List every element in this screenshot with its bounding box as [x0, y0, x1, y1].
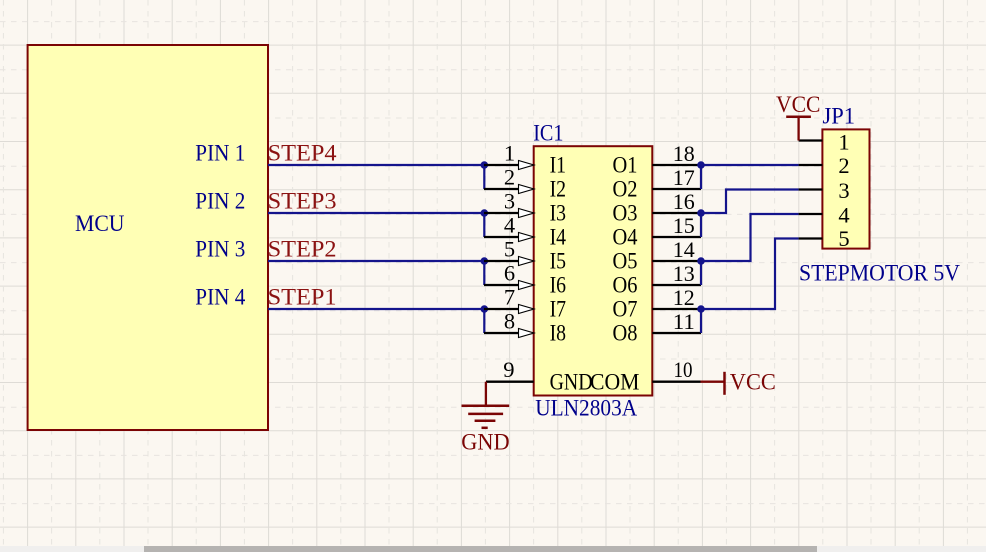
JP1 pin 4 stub	[799, 203, 850, 228]
svg-text:14: 14	[673, 237, 695, 262]
wire O3/O4 pair to JP1 pin 3 vertical pair link	[700, 213, 702, 237]
wire O5/O6 pair to JP1 pin 4 routed	[701, 214, 799, 261]
IC1 output pin 12 stub	[652, 285, 701, 310]
svg-text:I6: I6	[550, 272, 567, 298]
wire O7/O8 pair to JP1 pin 5 vertical pair link	[700, 309, 702, 333]
svg-text:JP1: JP1	[823, 104, 856, 130]
svg-text:GND: GND	[550, 370, 593, 396]
svg-text:11: 11	[673, 309, 695, 334]
wire O1/O2 pair to JP1 pin 2 vertical pair link	[700, 165, 702, 189]
junction at IC1 output, O7/O8 pair to JP1 pin 5	[697, 305, 705, 313]
junction at IC1 output, O1/O2 pair to JP1 pin 2	[697, 161, 705, 169]
svg-text:2: 2	[838, 153, 849, 178]
svg-text:STEP3: STEP3	[268, 188, 337, 214]
svg-text:I7: I7	[550, 296, 567, 322]
IC1 input pin 6 stub with input triangle	[484, 261, 534, 290]
junction net STEP1	[481, 305, 489, 313]
wire net STEP4 horizontal MCU to IC1	[268, 164, 484, 166]
svg-text:9: 9	[503, 357, 514, 382]
svg-text:O8: O8	[613, 320, 638, 346]
svg-text:6: 6	[504, 261, 515, 286]
svg-text:IC1: IC1	[533, 121, 563, 147]
wire O3/O4 pair to JP1 pin 3 routed	[701, 190, 799, 214]
IC1 pin 9 (GND) stub	[486, 357, 534, 382]
svg-text:5: 5	[504, 237, 515, 262]
svg-text:4: 4	[838, 203, 849, 228]
wire net STEP2 horizontal MCU to IC1	[268, 260, 484, 262]
svg-text:O7: O7	[613, 296, 638, 322]
IC1 output pin 18 stub	[652, 141, 701, 166]
junction at IC1 output, O5/O6 pair to JP1 pin 4	[697, 257, 705, 265]
svg-text:PIN 2: PIN 2	[195, 188, 245, 214]
IC1 input pin 2 stub with input triangle	[484, 165, 534, 194]
svg-text:3: 3	[504, 189, 515, 214]
IC1 input pin 8 stub with input triangle	[484, 309, 534, 338]
JP1 pin 1 stub	[799, 130, 850, 155]
power port VCC (top, feeds JP1 pin 1)	[776, 92, 821, 140]
svg-text:8: 8	[504, 309, 515, 334]
svg-text:STEP1: STEP1	[268, 284, 337, 310]
svg-text:STEP2: STEP2	[268, 236, 337, 262]
svg-text:O4: O4	[613, 224, 638, 250]
wire net STEP2 vertical to lower input pin	[483, 261, 485, 285]
wire net STEP1 vertical to lower input pin	[483, 309, 485, 333]
svg-text:O6: O6	[613, 272, 638, 298]
svg-text:O3: O3	[613, 200, 638, 226]
svg-text:4: 4	[504, 213, 515, 238]
wire O7/O8 pair to JP1 pin 5 routed	[701, 239, 799, 310]
svg-text:VCC: VCC	[776, 92, 821, 118]
wire net STEP3 vertical to lower input pin	[483, 213, 485, 237]
JP1 pin 3 stub	[799, 178, 850, 203]
svg-text:1: 1	[504, 141, 515, 166]
IC1 output pin 17 stub	[652, 165, 701, 190]
wire net STEP4 vertical to lower input pin	[483, 165, 485, 189]
svg-text:GND: GND	[461, 429, 509, 455]
svg-text:2: 2	[504, 165, 515, 190]
svg-text:7: 7	[504, 285, 515, 310]
svg-text:I4: I4	[550, 224, 567, 250]
svg-text:12: 12	[673, 285, 695, 310]
connector JP1 body	[822, 129, 869, 248]
svg-text:O1: O1	[613, 152, 638, 178]
wire O1/O2 pair to JP1 pin 2 horizontal	[701, 164, 799, 166]
IC1 input pin 1 stub with input triangle	[484, 141, 534, 170]
IC U1: darlington driver IC1 body	[534, 146, 653, 395]
IC1 output pin 16 stub	[652, 189, 701, 214]
svg-text:I2: I2	[550, 176, 567, 202]
junction net STEP3	[481, 209, 489, 217]
svg-text:1: 1	[838, 130, 849, 155]
svg-text:3: 3	[838, 178, 849, 203]
IC1 input pin 7 stub with input triangle	[484, 285, 534, 314]
svg-text:5: 5	[838, 226, 849, 251]
wire O5/O6 pair to JP1 pin 4 vertical pair link	[700, 261, 702, 285]
svg-text:18: 18	[673, 141, 695, 166]
IC1 pin 10 (COM) stub	[652, 357, 700, 382]
svg-text:VCC: VCC	[730, 369, 776, 395]
wire net STEP1 horizontal MCU to IC1	[268, 308, 484, 310]
IC1 input pin 4 stub with input triangle	[484, 213, 534, 242]
IC1 output pin 11 stub	[652, 309, 701, 334]
svg-text:MCU: MCU	[75, 211, 125, 237]
IC1 input pin 5 stub with input triangle	[484, 237, 534, 266]
svg-text:I5: I5	[550, 248, 567, 274]
svg-text:COM: COM	[590, 370, 640, 396]
IC1 output pin 14 stub	[652, 237, 701, 262]
junction net STEP2	[481, 257, 489, 265]
svg-text:I1: I1	[550, 152, 567, 178]
svg-text:10: 10	[674, 357, 693, 382]
svg-text:15: 15	[673, 213, 695, 238]
ground GND power port on IC1 pin 9	[461, 382, 509, 456]
svg-text:PIN 1: PIN 1	[195, 140, 245, 166]
svg-text:16: 16	[673, 189, 695, 214]
IC1 input pin 3 stub with input triangle	[484, 189, 534, 218]
component MCU body	[28, 45, 268, 430]
svg-text:STEPMOTOR 5V: STEPMOTOR 5V	[799, 261, 960, 287]
junction at IC1 output, O3/O4 pair to JP1 pin 3	[697, 209, 705, 217]
svg-text:PIN 3: PIN 3	[195, 236, 245, 262]
svg-text:ULN2803A: ULN2803A	[535, 396, 637, 422]
junction net STEP4	[481, 161, 489, 169]
IC1 output pin 13 stub	[652, 261, 701, 286]
svg-text:13: 13	[673, 261, 695, 286]
svg-text:I3: I3	[550, 200, 567, 226]
JP1 pin 5 stub	[799, 226, 850, 251]
svg-text:O2: O2	[613, 176, 638, 202]
wire net STEP3 horizontal MCU to IC1	[268, 212, 484, 214]
svg-text:STEP4: STEP4	[268, 140, 337, 166]
svg-text:I8: I8	[550, 320, 567, 346]
IC1 output pin 15 stub	[652, 213, 701, 238]
svg-text:17: 17	[673, 165, 695, 190]
svg-text:PIN 4: PIN 4	[195, 284, 245, 310]
svg-text:O5: O5	[613, 248, 638, 274]
power port VCC (right, on IC1 COM pin 10)	[701, 369, 776, 395]
JP1 pin 2 stub	[799, 153, 850, 178]
